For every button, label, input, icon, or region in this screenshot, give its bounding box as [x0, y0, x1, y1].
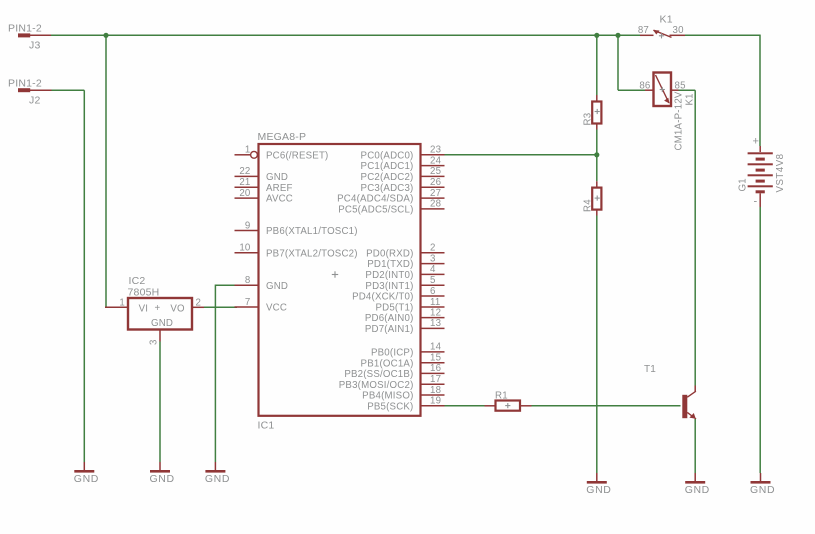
svg-text:GND: GND [685, 484, 710, 496]
svg-text:19: 19 [430, 396, 441, 407]
svg-text:PB0(ICP): PB0(ICP) [371, 348, 414, 359]
svg-text:GND: GND [266, 281, 288, 292]
svg-text:PD4(XCK/T0): PD4(XCK/T0) [352, 292, 413, 303]
svg-text:PC0(ADC0): PC0(ADC0) [361, 150, 414, 161]
svg-text:13: 13 [430, 318, 441, 329]
svg-text:PD6(AIN0): PD6(AIN0) [365, 313, 414, 324]
svg-text:IC2: IC2 [129, 275, 146, 287]
svg-text:5: 5 [430, 275, 436, 286]
svg-text:PD0(RXD): PD0(RXD) [366, 248, 413, 259]
svg-text:GND: GND [74, 473, 99, 485]
svg-text:K1: K1 [685, 93, 696, 105]
svg-text:GND: GND [205, 473, 230, 485]
svg-text:11: 11 [430, 297, 440, 308]
svg-text:GND: GND [266, 172, 288, 183]
svg-text:VO: VO [170, 303, 185, 314]
svg-text:PD5(T1): PD5(T1) [375, 303, 413, 314]
svg-text:24: 24 [430, 155, 442, 166]
svg-text:PC1(ADC1): PC1(ADC1) [361, 161, 414, 172]
svg-text:MEGA8-P: MEGA8-P [258, 131, 307, 143]
svg-text:12: 12 [430, 307, 441, 318]
svg-text:4: 4 [430, 264, 436, 275]
svg-text:PB1(OC1A): PB1(OC1A) [361, 358, 414, 369]
svg-text:GND: GND [586, 484, 611, 496]
svg-text:PC2(ADC2): PC2(ADC2) [361, 172, 414, 183]
svg-text:3: 3 [430, 253, 436, 264]
svg-text:15: 15 [430, 353, 441, 364]
svg-text:IC1: IC1 [258, 420, 275, 432]
svg-text:PC3(ADC3): PC3(ADC3) [361, 183, 414, 194]
svg-text:PC6(/RESET): PC6(/RESET) [266, 150, 329, 161]
svg-text:9: 9 [245, 220, 251, 231]
svg-text:26: 26 [430, 177, 441, 188]
svg-text:PC5(ADC5/SCL): PC5(ADC5/SCL) [338, 205, 413, 216]
svg-text:2: 2 [196, 298, 202, 309]
svg-text:K1: K1 [660, 14, 673, 26]
svg-text:G1: G1 [738, 178, 749, 191]
svg-text:T1: T1 [644, 364, 656, 375]
svg-text:R3: R3 [583, 113, 594, 126]
svg-text:PIN1-2: PIN1-2 [8, 23, 42, 35]
svg-text:GND: GND [151, 318, 173, 329]
svg-text:PD1(TXD): PD1(TXD) [367, 259, 413, 270]
svg-text:PIN1-2: PIN1-2 [8, 78, 42, 90]
svg-text:16: 16 [430, 363, 441, 374]
svg-text:PB3(MOSI/OC2): PB3(MOSI/OC2) [339, 380, 414, 391]
svg-text:22: 22 [239, 166, 250, 177]
svg-text:PD7(AIN1): PD7(AIN1) [365, 324, 414, 335]
svg-text:GND: GND [150, 473, 175, 485]
svg-text:21: 21 [239, 177, 250, 188]
svg-text:10: 10 [239, 243, 251, 254]
svg-text:+: + [155, 303, 161, 314]
svg-text:2: 2 [430, 243, 436, 254]
svg-text:-: - [754, 196, 758, 208]
svg-text:3: 3 [148, 339, 159, 345]
svg-text:AREF: AREF [266, 183, 293, 194]
svg-text:PD3(INT1): PD3(INT1) [365, 281, 413, 292]
svg-text:1: 1 [245, 145, 251, 156]
svg-text:+: + [753, 136, 760, 148]
svg-text:1: 1 [119, 298, 125, 309]
svg-text:PD2(INT0): PD2(INT0) [365, 270, 413, 281]
svg-text:25: 25 [430, 166, 441, 177]
svg-text:R4: R4 [583, 199, 594, 212]
svg-text:PB5(SCK): PB5(SCK) [367, 401, 413, 412]
svg-text:17: 17 [430, 374, 441, 385]
svg-text:28: 28 [430, 199, 441, 210]
svg-text:20: 20 [239, 188, 251, 199]
svg-text:J2: J2 [29, 95, 41, 107]
svg-text:7: 7 [245, 297, 251, 308]
svg-text:GND: GND [750, 484, 775, 496]
svg-text:VST4V8: VST4V8 [775, 153, 786, 192]
svg-text:CM1A-P-12V: CM1A-P-12V [674, 91, 685, 150]
svg-text:PC4(ADC4/SDA): PC4(ADC4/SDA) [337, 194, 413, 205]
svg-text:J3: J3 [29, 40, 41, 52]
svg-text:VI: VI [139, 303, 149, 314]
svg-text:PB6(XTAL1/TOSC1): PB6(XTAL1/TOSC1) [266, 226, 358, 237]
svg-text:PB7(XTAL2/TOSC2): PB7(XTAL2/TOSC2) [266, 248, 358, 259]
svg-text:7805H: 7805H [128, 287, 160, 299]
svg-text:AVCC: AVCC [266, 194, 293, 205]
svg-text:PB2(SS/OC1B): PB2(SS/OC1B) [344, 369, 413, 380]
svg-text:6: 6 [430, 286, 436, 297]
svg-text:8: 8 [245, 275, 251, 286]
svg-text:27: 27 [430, 188, 441, 199]
svg-text:23: 23 [430, 145, 441, 156]
svg-text:PB4(MISO): PB4(MISO) [362, 391, 413, 402]
svg-text:86: 86 [639, 80, 650, 91]
svg-text:18: 18 [430, 385, 441, 396]
svg-text:14: 14 [430, 342, 442, 353]
svg-text:VCC: VCC [266, 303, 287, 314]
